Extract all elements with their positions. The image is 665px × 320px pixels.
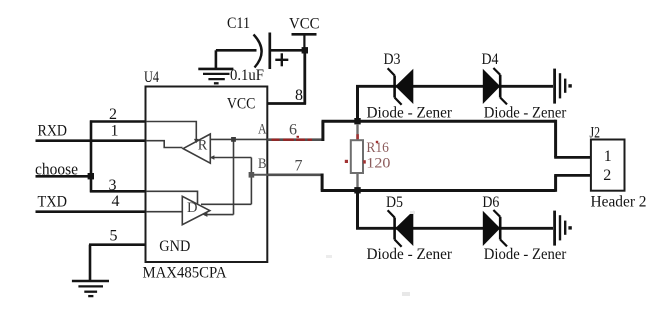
svg-text:1: 1	[604, 148, 612, 165]
wire vertical bus pins 2-3	[90, 120, 93, 192]
power VCC symbol	[292, 34, 317, 50]
wire RXD to pin1	[36, 139, 147, 142]
ground GND1	[72, 281, 109, 296]
svg-text:VCC: VCC	[289, 15, 320, 32]
wire trunk B bus to diodes bottom	[356, 190, 359, 229]
arrowhead D output	[203, 212, 208, 217]
wire pin5	[89, 243, 147, 246]
ground GND3 top right	[555, 69, 566, 104]
ground GND2 under C11	[198, 69, 233, 83]
capacitor C11	[216, 15, 304, 84]
wire A bus	[322, 120, 556, 123]
svg-text:D5: D5	[386, 194, 403, 211]
svg-text:1: 1	[111, 123, 119, 140]
red artifacts near R16	[345, 134, 378, 163]
svg-text:B: B	[258, 156, 267, 172]
resistor R16 top stub	[356, 124, 358, 141]
plus sign	[275, 53, 288, 66]
resistor R16 body	[351, 140, 363, 173]
wire top diode row	[356, 85, 553, 88]
ground GND4 bottom right	[555, 211, 566, 246]
wire trunk diodes top to A bus	[356, 85, 359, 123]
svg-text:C11: C11	[227, 15, 250, 32]
wire B bus up to J2 pin2	[554, 175, 557, 191]
wire B corner down to bus	[321, 174, 324, 191]
scan smudge 3	[410, 211, 415, 214]
wire J2 pin2	[554, 174, 591, 177]
svg-text:8: 8	[295, 87, 303, 104]
svg-text:Diode - Zener: Diode - Zener	[367, 105, 453, 122]
svg-text:Diode - Zener: Diode - Zener	[484, 105, 567, 122]
resistor R16 bottom stub	[356, 173, 358, 188]
scan smudge 1	[402, 292, 410, 296]
arrowhead R inverting input	[210, 155, 215, 160]
svg-text:4: 4	[112, 193, 120, 210]
junction B internal	[249, 172, 255, 178]
arrowhead pin2 enable	[194, 139, 199, 143]
svg-text:D4: D4	[482, 51, 499, 68]
svg-text:U4: U4	[144, 69, 159, 86]
svg-text:R: R	[198, 138, 208, 154]
op-amp U4 chip body MAX485CPA	[146, 87, 268, 263]
wire B net internal from R	[210, 157, 251, 159]
svg-text:MAX485CPA: MAX485CPA	[143, 264, 227, 281]
wire pin5 vertical to ground	[89, 245, 92, 281]
receiver triangle R	[183, 134, 210, 163]
wire B bus	[321, 189, 556, 192]
svg-text:5: 5	[110, 228, 118, 245]
junction A internal	[231, 137, 236, 142]
wire A internal vertical	[233, 139, 235, 214]
red net label remnants on A wire	[272, 136, 313, 141]
svg-text:0.1uF: 0.1uF	[230, 67, 264, 84]
wire J2 pin1	[554, 156, 591, 159]
svg-text:3: 3	[109, 177, 117, 194]
wire A bus down to J2 pin1	[554, 120, 557, 158]
svg-text:Diode - Zener: Diode - Zener	[484, 246, 567, 263]
svg-text:2: 2	[603, 167, 611, 184]
driver triangle D	[182, 196, 210, 224]
wire B internal vertical	[250, 158, 252, 205]
diode D3 zener	[388, 68, 414, 105]
wire A net internal from R	[210, 138, 267, 140]
junction VCC	[302, 47, 308, 53]
wire pin6 A external gray	[268, 138, 324, 141]
junction B bus R16	[354, 187, 360, 193]
svg-text:6: 6	[289, 122, 297, 139]
junction choose	[88, 173, 94, 179]
wire pin8	[268, 102, 307, 105]
wire pin3	[90, 190, 147, 193]
ground GND4 dot	[568, 226, 571, 229]
cap straight plate	[268, 33, 271, 70]
svg-text:VCC: VCC	[227, 96, 256, 113]
svg-text:TXD: TXD	[38, 194, 68, 211]
svg-text:D: D	[187, 200, 198, 216]
wire cap ground drop	[215, 50, 218, 68]
svg-text:D3: D3	[384, 51, 401, 68]
svg-text:Diode - Zener: Diode - Zener	[367, 246, 453, 263]
junction A bus R16	[354, 118, 360, 124]
svg-text:RXD: RXD	[38, 123, 68, 140]
svg-text:A: A	[258, 121, 267, 137]
wire pin1 internal to R output	[146, 141, 183, 148]
svg-text:GND: GND	[159, 238, 190, 255]
diode D4 zener	[483, 68, 507, 104]
wire pin7 B external gray	[268, 174, 323, 177]
wire bottom diode row	[356, 227, 553, 230]
svg-text:J2: J2	[590, 125, 601, 142]
wire cap right	[270, 49, 304, 52]
wire A corner up to bus	[321, 121, 324, 141]
wire choose	[36, 175, 92, 178]
diode D6 zener	[483, 210, 507, 246]
ground GND3 dot	[568, 84, 571, 87]
wire VCC vertical	[303, 49, 306, 105]
wire B internal exit	[251, 174, 267, 176]
wire pin4 internal to D input	[146, 211, 182, 213]
wire TXD to pin4	[36, 210, 147, 213]
cap curved plate	[254, 35, 262, 68]
wire pin2 internal to R enable	[146, 122, 196, 141]
scan smudge 2	[326, 255, 332, 258]
svg-text:Header 2: Header 2	[591, 194, 647, 211]
wire pin2	[90, 120, 147, 123]
wire B internal to D enable	[201, 203, 251, 205]
svg-text:7: 7	[295, 158, 303, 175]
connector J2 box	[591, 140, 625, 191]
wire cap left	[216, 49, 257, 52]
wire A internal to D output	[204, 214, 234, 216]
svg-text:2: 2	[109, 106, 117, 123]
svg-text:120: 120	[366, 156, 390, 172]
diode D5 zener	[388, 210, 414, 247]
wire pin3 internal to D enable	[146, 191, 198, 204]
svg-text:D6: D6	[482, 194, 499, 211]
